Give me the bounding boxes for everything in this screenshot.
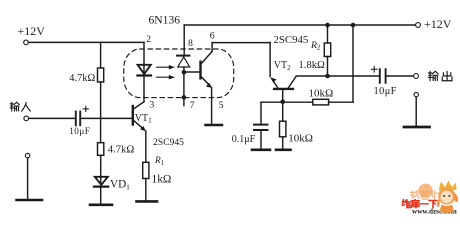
svg-text:6N136: 6N136 [149, 14, 181, 27]
svg-text:6: 6 [210, 31, 215, 42]
svg-text:10μF: 10μF [69, 126, 90, 136]
svg-text:+12V: +12V [424, 17, 452, 31]
svg-text:1kΩ: 1kΩ [152, 173, 172, 185]
svg-text:0.1μF: 0.1μF [232, 134, 256, 145]
svg-text:2: 2 [146, 34, 151, 45]
svg-text:10μF: 10μF [374, 86, 397, 97]
svg-text:VT1: VT1 [135, 113, 152, 125]
svg-text:5: 5 [219, 100, 224, 111]
svg-text:8: 8 [188, 38, 193, 49]
svg-text:10kΩ: 10kΩ [309, 87, 334, 99]
svg-text:1.8kΩ: 1.8kΩ [299, 60, 326, 71]
svg-text:7: 7 [190, 100, 195, 111]
svg-text:R2: R2 [310, 40, 321, 52]
svg-text:+12V: +12V [18, 24, 46, 38]
svg-text:VD1: VD1 [110, 179, 130, 192]
svg-text:10kΩ: 10kΩ [288, 133, 313, 145]
svg-text:2SC945: 2SC945 [274, 34, 309, 46]
svg-text:4.7kΩ: 4.7kΩ [69, 73, 95, 84]
svg-text:VT2: VT2 [274, 60, 291, 72]
svg-text:R1: R1 [154, 156, 165, 167]
svg-text:4.7kΩ: 4.7kΩ [108, 145, 135, 156]
svg-text:3: 3 [149, 100, 154, 111]
svg-text:2SC945: 2SC945 [153, 137, 184, 148]
